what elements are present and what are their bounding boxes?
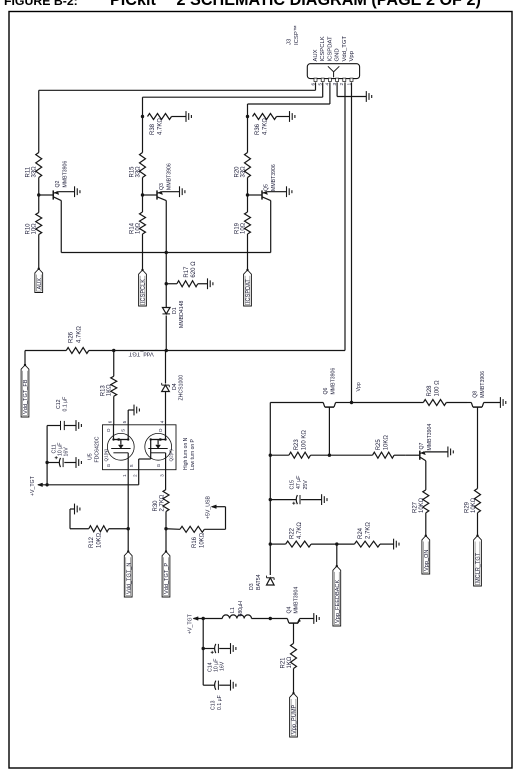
svg-text:Vdd_TGT: Vdd_TGT	[128, 350, 154, 356]
svg-text:S: S	[121, 429, 126, 432]
svg-text:Q4: Q4	[287, 606, 293, 613]
svg-text:R24: R24	[358, 527, 364, 539]
svg-text:R27: R27	[412, 501, 418, 513]
svg-text:R25: R25	[376, 439, 382, 451]
svg-text:4.7KΩ: 4.7KΩ	[158, 118, 164, 135]
svg-text:3: 3	[160, 474, 165, 477]
svg-text:R10: R10	[26, 223, 32, 235]
svg-text:Vdd_TGT_P: Vdd_TGT_P	[164, 563, 170, 594]
svg-text:680µH: 680µH	[238, 601, 244, 617]
svg-text:Q2(P): Q2(P)	[169, 449, 174, 462]
svg-text:Q6: Q6	[323, 387, 329, 394]
svg-text:G: G	[106, 463, 111, 467]
svg-text:R22: R22	[290, 527, 296, 539]
svg-text:6: 6	[108, 420, 113, 423]
svg-text:R20: R20	[234, 166, 240, 178]
svg-text:R14: R14	[129, 222, 135, 234]
svg-text:R30: R30	[153, 500, 159, 512]
svg-text:D1: D1	[172, 307, 178, 314]
svg-text:R15: R15	[129, 166, 135, 178]
svg-text:S: S	[129, 464, 134, 467]
svg-text:4.7KΩ: 4.7KΩ	[263, 118, 269, 135]
svg-text:10Ω: 10Ω	[32, 223, 38, 235]
svg-text:Vpp_FEEDBACK: Vpp_FEEDBACK	[335, 580, 341, 623]
svg-text:2: 2	[133, 474, 138, 477]
svg-text:2.7KΩ: 2.7KΩ	[366, 522, 372, 539]
svg-text:D4: D4	[172, 383, 178, 390]
svg-text:J3: J3	[287, 38, 293, 45]
svg-text:16V: 16V	[64, 447, 70, 457]
svg-text:10KΩ: 10KΩ	[471, 497, 477, 513]
svg-text:D: D	[158, 429, 163, 432]
svg-text:C15: C15	[290, 480, 296, 490]
svg-text:Q1(N): Q1(N)	[104, 449, 109, 462]
svg-text:R19: R19	[234, 222, 240, 234]
svg-text:33Ω: 33Ω	[241, 166, 247, 178]
svg-text:MMBT3906: MMBT3906	[271, 164, 277, 191]
svg-text:4.7KΩ: 4.7KΩ	[297, 522, 303, 539]
svg-text:D3: D3	[249, 583, 255, 590]
svg-text:10Ω: 10Ω	[241, 222, 247, 234]
svg-text:C13: C13	[210, 700, 216, 710]
svg-text:4: 4	[160, 420, 165, 423]
svg-text:10KΩ: 10KΩ	[384, 435, 390, 451]
svg-text:1: 1	[122, 474, 127, 477]
svg-text:Q5: Q5	[264, 184, 270, 191]
svg-text:GND: GND	[335, 48, 341, 61]
svg-text:D: D	[106, 429, 111, 432]
svg-text:Q2: Q2	[55, 180, 61, 187]
svg-text:Vdd_TGT_FB: Vdd_TGT_FB	[23, 379, 29, 414]
svg-text:C14: C14	[207, 662, 213, 672]
svg-text:BAT54: BAT54	[256, 574, 262, 590]
svg-text:R36: R36	[255, 123, 261, 135]
svg-text:ZHCS1000: ZHCS1000	[179, 375, 185, 401]
svg-text:R38: R38	[150, 123, 156, 135]
svg-text:C11: C11	[51, 444, 57, 453]
svg-text:Q8: Q8	[473, 391, 479, 398]
svg-text:Q3: Q3	[159, 183, 165, 190]
svg-text:10KΩ: 10KΩ	[419, 497, 425, 513]
svg-text:0.1 µF: 0.1 µF	[63, 397, 69, 412]
svg-text:R11: R11	[26, 166, 32, 177]
svg-text:25V: 25V	[303, 480, 309, 490]
svg-text:33Ω: 33Ω	[32, 166, 38, 178]
svg-text:FDC6420C: FDC6420C	[95, 436, 101, 462]
svg-text:33Ω: 33Ω	[136, 166, 142, 178]
svg-text:+V_TGT: +V_TGT	[30, 475, 36, 496]
svg-text:R17: R17	[184, 266, 190, 278]
svg-text:AUX: AUX	[37, 278, 43, 290]
svg-text:MMBT3904: MMBT3904	[427, 424, 433, 451]
svg-text:U5: U5	[88, 453, 94, 460]
svg-text:R28: R28	[427, 385, 433, 397]
svg-text:MMBT3906: MMBT3906	[166, 163, 172, 190]
svg-text:100 Ω: 100 Ω	[434, 380, 440, 397]
svg-text:Vdd_TGT_N: Vdd_TGT_N	[126, 563, 132, 594]
svg-text:+5V_USB: +5V_USB	[206, 496, 212, 519]
svg-text:C12: C12	[56, 399, 62, 409]
svg-text:Vdd_TGT: Vdd_TGT	[342, 36, 348, 62]
svg-text:R29: R29	[464, 501, 470, 513]
svg-text:R21: R21	[280, 657, 286, 669]
svg-text:620 Ω: 620 Ω	[191, 261, 197, 278]
svg-text:47 µF: 47 µF	[296, 476, 302, 489]
svg-text:Vpp_ON: Vpp_ON	[424, 550, 430, 571]
svg-text:Vpp: Vpp	[349, 50, 355, 61]
svg-text:AUX: AUX	[313, 49, 319, 61]
svg-text:1KΩ: 1KΩ	[107, 384, 113, 396]
svg-text:10KΩ: 10KΩ	[199, 532, 205, 548]
svg-text:2.7KΩ: 2.7KΩ	[159, 494, 165, 511]
svg-text:5: 5	[122, 420, 127, 423]
svg-text:R16: R16	[192, 536, 198, 548]
svg-text:MMBT3906: MMBT3906	[331, 368, 337, 395]
svg-text:MMBD4148: MMBD4148	[179, 300, 185, 328]
svg-text:L1: L1	[230, 607, 236, 613]
svg-text:0.1 µF: 0.1 µF	[217, 695, 223, 710]
svg-text:Low turn on P: Low turn on P	[190, 438, 196, 470]
svg-text:10Ω: 10Ω	[136, 222, 142, 234]
svg-text:100 KΩ: 100 KΩ	[301, 430, 307, 451]
svg-text:16V: 16V	[220, 661, 226, 671]
svg-text:R23: R23	[294, 439, 300, 451]
svg-text:MMBT3906: MMBT3906	[63, 161, 69, 188]
svg-text:10KΩ: 10KΩ	[97, 532, 103, 548]
svg-text:R26: R26	[68, 331, 74, 343]
svg-text:G: G	[156, 463, 161, 467]
svg-text:Vpp: Vpp	[356, 382, 362, 391]
svg-text:ICSPDAT: ICSPDAT	[246, 279, 252, 303]
svg-text:MMBT3904: MMBT3904	[294, 587, 300, 614]
svg-text:2: 2	[339, 83, 345, 86]
svg-text:MCLR_TGT: MCLR_TGT	[476, 552, 482, 583]
svg-text:1KΩ: 1KΩ	[287, 656, 293, 668]
svg-text:+V_TGT: +V_TGT	[187, 613, 193, 634]
svg-text:ICSPCLK: ICSPCLK	[320, 36, 326, 61]
svg-text:Q7: Q7	[419, 442, 425, 449]
svg-text:ICSPDAT: ICSPDAT	[327, 36, 333, 61]
svg-text:ICSP™: ICSP™	[293, 25, 300, 45]
svg-text:R12: R12	[89, 536, 95, 548]
svg-text:MMBT3906: MMBT3906	[480, 371, 486, 398]
svg-text:ICSPCLK: ICSPCLK	[141, 279, 147, 303]
svg-text:4.7KΩ: 4.7KΩ	[76, 326, 82, 343]
svg-text:Vpp_PUMP: Vpp_PUMP	[292, 705, 298, 734]
svg-text:High turn on N: High turn on N	[183, 437, 189, 470]
svg-text:R13: R13	[101, 385, 107, 397]
